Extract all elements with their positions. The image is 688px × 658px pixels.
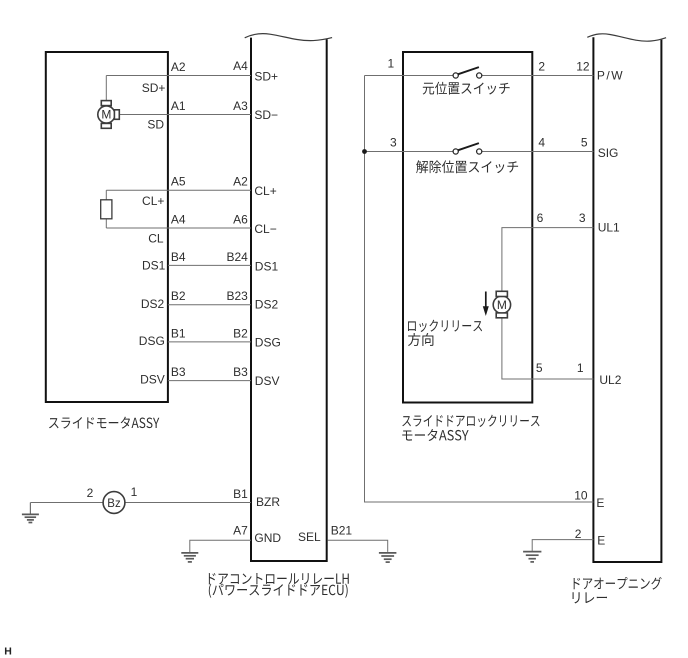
label: door control relay LH <box>209 573 349 584</box>
wire CL+ A5 to A2 <box>106 189 251 191</box>
torn-edge wavy top of ECU box <box>245 34 332 41</box>
svg-text:B3: B3 <box>233 365 248 379</box>
svg-text:A2: A2 <box>233 175 248 189</box>
wire node A vertical bus pins 1/3 to relay 10 E <box>365 76 594 503</box>
label: home position switch <box>423 82 510 95</box>
svg-text:SD+: SD+ <box>254 69 278 83</box>
switch SW1 (home position switch) <box>453 67 482 78</box>
ground symbol G2 (ECU GND) <box>181 553 198 562</box>
label: release position switch <box>416 160 518 173</box>
svg-text:GND: GND <box>254 531 281 545</box>
svg-text:Bz: Bz <box>107 498 121 510</box>
wire DS1 B4 to B24 <box>168 264 251 266</box>
svg-text:H: H <box>4 645 12 657</box>
svg-text:B1: B1 <box>233 487 248 501</box>
svg-text:1: 1 <box>577 361 584 375</box>
svg-text:E: E <box>596 496 604 510</box>
svg-text:4: 4 <box>538 136 545 150</box>
svg-text:B4: B4 <box>171 250 186 264</box>
wire UL2 motor M2 bottom to relay pin 1 <box>502 318 594 379</box>
door opening relay box U4 <box>592 37 662 562</box>
svg-text:CL: CL <box>148 231 164 245</box>
svg-text:DS1: DS1 <box>255 260 279 274</box>
svg-text:B23: B23 <box>226 289 248 303</box>
svg-text:B3: B3 <box>171 365 186 379</box>
ground symbol G1 (buzzer) <box>22 514 39 522</box>
svg-text:10: 10 <box>574 489 588 503</box>
label: lock release <box>408 320 482 332</box>
wire E2: ground to relay pin 2 <box>532 540 593 551</box>
ground symbol G3 (SEL) <box>379 553 397 562</box>
svg-text:A1: A1 <box>171 99 186 113</box>
wire DSV B3 to B3 <box>168 380 251 382</box>
wire buzzer pin 1 to ECU B1 BZR <box>125 502 251 504</box>
svg-text:CL−: CL− <box>254 222 276 236</box>
wire DSG B1 to B2 <box>168 341 251 343</box>
svg-text:DS2: DS2 <box>255 297 279 311</box>
svg-text:A2: A2 <box>171 60 186 74</box>
svg-text:5: 5 <box>536 361 543 375</box>
svg-text:UL1: UL1 <box>598 221 620 235</box>
svg-text:3: 3 <box>579 211 586 225</box>
label: power slide door ECU <box>209 584 348 598</box>
svg-text:DS2: DS2 <box>141 297 165 311</box>
label: motor ASSY <box>402 429 468 441</box>
wire ECU A7 GND to ground <box>190 540 251 552</box>
label: direction <box>408 333 433 346</box>
door control relay LH (ECU) box U2 <box>250 38 328 561</box>
svg-text:P/W: P/W <box>597 68 624 82</box>
svg-text:DSV: DSV <box>255 374 280 388</box>
wire SD+ A2 to A4 <box>106 75 251 77</box>
svg-text:6: 6 <box>537 211 544 225</box>
svg-text:B24: B24 <box>226 250 248 264</box>
wire P/W: bus to switch SW1 <box>365 75 454 77</box>
svg-text:M: M <box>101 108 111 122</box>
svg-text:2: 2 <box>87 486 94 500</box>
svg-text:DS1: DS1 <box>142 259 166 273</box>
svg-text:A4: A4 <box>171 213 186 227</box>
svg-text:A5: A5 <box>171 175 186 189</box>
label: slide door lock release <box>402 415 539 427</box>
svg-text:SD: SD <box>147 117 164 131</box>
svg-text:2: 2 <box>538 59 545 73</box>
svg-text:3: 3 <box>390 136 397 150</box>
svg-text:B21: B21 <box>331 524 353 538</box>
wire UL1 motor M2 top to relay pin 3 <box>502 228 594 292</box>
svg-text:1: 1 <box>388 56 395 70</box>
svg-text:B1: B1 <box>171 326 186 340</box>
label: slide motor ASSY <box>49 417 159 429</box>
svg-text:B2: B2 <box>171 289 186 303</box>
motor M2 (lock release motor) <box>493 291 510 318</box>
label: relay <box>572 592 607 603</box>
wire motor M1 top lead <box>105 76 107 102</box>
svg-text:A4: A4 <box>233 59 248 73</box>
arrow lock-release direction <box>483 292 489 317</box>
label: door opening <box>574 577 662 590</box>
svg-text:5: 5 <box>581 136 588 150</box>
resistor R1 (clutch coil) <box>101 200 112 219</box>
buzzer Bz <box>103 492 125 514</box>
svg-text:1: 1 <box>131 485 138 499</box>
svg-text:A7: A7 <box>233 524 248 538</box>
slide motor ASSY box U1 <box>46 52 168 402</box>
wire ground to buzzer pin 2 <box>30 502 103 504</box>
svg-text:CL+: CL+ <box>254 184 276 198</box>
motor M1 (slide motor) <box>98 101 120 129</box>
svg-text:SEL: SEL <box>298 530 321 544</box>
svg-text:A3: A3 <box>233 99 248 113</box>
svg-text:UL2: UL2 <box>599 373 621 387</box>
junction node on bus at SIG <box>362 149 367 154</box>
ground symbol G4 (relay E) <box>523 552 541 562</box>
wire resistor R1 bottom lead <box>105 219 107 228</box>
wire SD A1 to A3 <box>119 114 251 116</box>
wire ECU SEL B21 to ground <box>328 540 388 552</box>
wire P/W: switch SW1 to relay pin 12 <box>482 75 594 77</box>
slide door lock release motor ASSY box U3 <box>403 52 532 403</box>
svg-text:DSG: DSG <box>255 335 281 349</box>
wire DS2 B2 to B23 <box>168 304 251 306</box>
ground stub for buzzer <box>29 503 31 514</box>
svg-text:BZR: BZR <box>256 495 280 509</box>
svg-text:12: 12 <box>576 59 590 73</box>
switch SW2 (release position switch) <box>453 143 482 154</box>
svg-text:2: 2 <box>575 527 582 541</box>
svg-text:B2: B2 <box>233 326 248 340</box>
svg-text:CL+: CL+ <box>142 194 164 208</box>
svg-text:DSV: DSV <box>140 373 165 387</box>
wire CL- A4 to A6 <box>106 227 251 229</box>
svg-text:A6: A6 <box>233 213 248 227</box>
wire SIG: bus junction to switch SW2 <box>365 151 454 153</box>
torn-edge wavy top of relay box <box>587 34 666 41</box>
svg-text:SIG: SIG <box>598 146 619 160</box>
wire SIG: switch SW2 to relay pin 5 <box>482 151 594 153</box>
svg-text:M: M <box>497 298 507 312</box>
svg-text:E: E <box>597 534 605 548</box>
svg-text:SD−: SD− <box>254 108 278 122</box>
wire resistor R1 top lead <box>105 190 107 200</box>
svg-text:DSG: DSG <box>139 334 165 348</box>
svg-text:SD+: SD+ <box>142 81 166 95</box>
